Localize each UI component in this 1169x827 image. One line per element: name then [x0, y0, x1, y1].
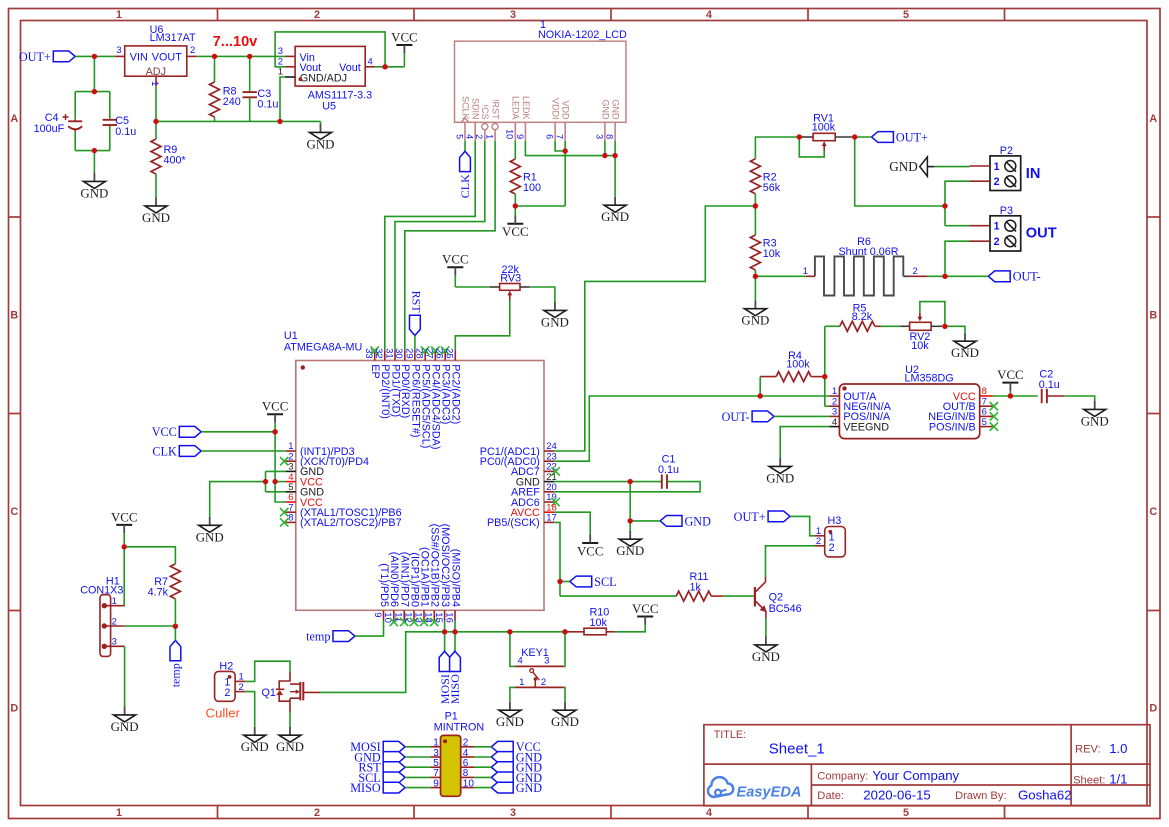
svg-text:GND: GND [276, 740, 304, 754]
svg-text:4: 4 [706, 807, 712, 819]
transistor Q2 BC546 [755, 577, 802, 618]
power VCC (H1) [111, 510, 138, 547]
wire R4 node to R5 and U2 pin2 [825, 326, 829, 406]
svg-text:BC546: BC546 [769, 603, 802, 615]
net flag VCC [152, 425, 201, 439]
wire C2 to ground [1064, 396, 1095, 401]
resistor R5 8.2k [825, 302, 901, 331]
ground GND (H2) [241, 727, 269, 754]
svg-text:VCC: VCC [111, 510, 138, 524]
wire VCC rail down to pin6 [275, 432, 286, 502]
svg-text:RST: RST [409, 291, 423, 314]
svg-text:4: 4 [706, 9, 712, 21]
svg-text:10k: 10k [590, 617, 608, 629]
svg-text:9: 9 [515, 134, 525, 139]
net flag GND (P1 pin 6) [474, 761, 542, 775]
wire U6 VOUT to U5 VIN [197, 55, 285, 57]
svg-text:2: 2 [112, 616, 117, 627]
ground GND (C2) [1081, 401, 1109, 428]
svg-text:(MISO)/PB4: (MISO)/PB4 [449, 549, 461, 607]
wire OUT- flag to U2 pin3 [774, 415, 829, 417]
svg-text:P3: P3 [1000, 205, 1013, 217]
wire C4/C5 top loop [75, 92, 110, 120]
svg-text:MINTRON: MINTRON [434, 721, 484, 733]
svg-text:(SS#/OC1B)/PB2: (SS#/OC1B)/PB2 [429, 524, 441, 607]
svg-text:Sheet_1: Sheet_1 [769, 741, 825, 758]
wire RV2 wiper loop [920, 302, 945, 327]
svg-text:13: 13 [412, 612, 423, 623]
svg-text:EasyEDA: EasyEDA [737, 785, 802, 801]
svg-text:OUT: OUT [1026, 226, 1057, 242]
connector H1 CON1X3 [80, 575, 124, 656]
svg-text:P2: P2 [1000, 145, 1013, 157]
svg-text:OUT+: OUT+ [19, 50, 51, 64]
svg-text:REV:: REV: [1075, 744, 1101, 756]
net flag GND (P1 pin 3) [354, 750, 430, 764]
wire RST flag to U1 pin29 [414, 336, 416, 351]
svg-text:29: 29 [403, 348, 414, 359]
svg-text:3: 3 [116, 45, 121, 56]
svg-text:3: 3 [544, 656, 549, 667]
svg-text:GND: GND [1081, 414, 1109, 428]
wire H2 pin2 to ground [245, 692, 254, 727]
ground GND (U1) [196, 517, 224, 544]
wire RV3 wiper to U1 PC2 [455, 300, 510, 350]
wire rail to KEY1 pin3 [564, 632, 565, 667]
power VCC (U2) [997, 368, 1024, 396]
svg-text:LEDK: LEDK [521, 96, 531, 120]
svg-text:7...10v: 7...10v [213, 34, 259, 50]
svg-text:Your Company: Your Company [872, 768, 959, 783]
ground GND (R9) [142, 198, 170, 225]
wire VCC down to H1 pin1 [123, 547, 125, 606]
svg-text:3: 3 [510, 807, 516, 819]
svg-text:31: 31 [383, 348, 394, 359]
svg-text:C: C [1149, 506, 1157, 518]
power VCC (LCD backlight) [502, 206, 529, 239]
resistor R8 240 [210, 56, 241, 121]
svg-text:PC2/(ADC2): PC2/(ADC2) [450, 364, 462, 424]
svg-text:2: 2 [994, 236, 1000, 248]
svg-text:1: 1 [803, 266, 808, 277]
resistor R11 1k [676, 571, 723, 601]
net flag SCL (P1 pin 7) [358, 771, 430, 785]
svg-text:VCC: VCC [391, 30, 418, 44]
svg-text:9: 9 [433, 778, 439, 789]
connector H3 [815, 515, 846, 557]
svg-text:(XTAL2/TOSC2)/PB7: (XTAL2/TOSC2)/PB7 [300, 517, 402, 529]
net flag OUT+ (H3) [734, 510, 790, 524]
svg-text:SDIN: SDIN [471, 98, 481, 120]
svg-text:ATMEGA8A-MU: ATMEGA8A-MU [284, 342, 362, 354]
svg-text:AMS1117-3.3: AMS1117-3.3 [308, 90, 372, 102]
wire Q1 gate to U1 PB3 net [320, 632, 445, 693]
wire dot to SCL flag [560, 581, 570, 583]
resistor R9 400* [151, 121, 187, 197]
net flag OUT+ (divider) [872, 130, 928, 144]
wire KEY1 pin2 to ground [564, 687, 565, 701]
wire RV3 right to ground [530, 287, 555, 302]
svg-text:PC6/(RESET#): PC6/(RESET#) [409, 364, 421, 437]
svg-text:(AIN0)/PD6: (AIN0)/PD6 [388, 552, 400, 607]
svg-text:1: 1 [519, 677, 524, 688]
wire dot to OUT- flag [945, 275, 988, 277]
resistor R3 10k [750, 235, 780, 276]
svg-text:VIN: VIN [130, 51, 148, 63]
connector P3 OUT [970, 205, 1057, 251]
svg-text:GND: GND [541, 315, 569, 329]
svg-text:OUT-: OUT- [722, 410, 750, 424]
svg-text:OUT+: OUT+ [896, 130, 928, 144]
svg-text:100uF: 100uF [34, 123, 65, 135]
svg-text:0.1u: 0.1u [257, 99, 278, 111]
net flag MISO (vertical) [448, 651, 462, 704]
svg-text:OUT-: OUT- [1013, 270, 1041, 284]
power VCC (RV3) [442, 253, 469, 287]
resistor R2 56k [750, 159, 780, 206]
net flag CLK (vertical) [458, 151, 472, 198]
svg-text:8: 8 [288, 513, 293, 524]
wire R2/R3 node [754, 206, 756, 235]
svg-text:14: 14 [423, 612, 434, 623]
power VCC (R10) [632, 602, 659, 625]
resistor R4 100k [760, 350, 825, 396]
svg-text:2: 2 [190, 45, 195, 56]
svg-text:A: A [1149, 113, 1157, 125]
svg-text:GND: GND [766, 471, 794, 485]
connector P1 MINTRON [430, 711, 484, 797]
wire !CS to U1 PD1 [395, 141, 485, 350]
ground GND (Q2) [752, 637, 780, 664]
wire CLK flag to pin1 [201, 450, 285, 452]
svg-text:7: 7 [555, 134, 565, 139]
svg-text:4.7k: 4.7k [148, 586, 169, 598]
svg-text:VCC: VCC [997, 368, 1024, 382]
wire Q2 collector to H3 pin2 [766, 546, 815, 577]
opamp U2 LM358DG [829, 364, 998, 439]
wire RV1 to OUT+ flag [852, 136, 872, 138]
net flag GND (P1 pin 8) [474, 771, 542, 785]
net flag CLK [152, 444, 201, 458]
wire key/R10 rail [445, 631, 565, 633]
wire OUT+ to U6 VIN [75, 55, 115, 57]
svg-text:U5: U5 [322, 101, 336, 113]
LCD module 1 NOKIA-1202_LCD [454, 19, 627, 141]
svg-text:GND: GND [551, 715, 579, 729]
svg-text:NOKIA-1202_LCD: NOKIA-1202_LCD [538, 29, 627, 41]
svg-text:VCC: VCC [152, 425, 177, 439]
wire U2 pin4 to ground [780, 427, 829, 458]
wire to R11 [560, 595, 676, 597]
svg-text:PB5/(SCK): PB5/(SCK) [487, 517, 540, 529]
svg-text:6: 6 [545, 134, 555, 139]
wire Q1 source to ground [289, 712, 291, 727]
ground GND (C4/C5) [80, 173, 108, 200]
svg-text:2: 2 [314, 807, 320, 819]
svg-text:VOUT: VOUT [152, 51, 182, 63]
svg-text:GND: GND [616, 544, 644, 558]
wire U1 pin15 to MOSI flag [444, 621, 446, 652]
ground GND (C1) [616, 531, 644, 558]
wire down to C4/C5 [93, 56, 95, 91]
svg-text:400*: 400* [164, 154, 187, 166]
power VCC (U1) [262, 400, 289, 432]
wire VCC to R7 [124, 547, 175, 564]
wire H2 pin1 to Q1 drain [245, 661, 290, 681]
svg-text:GND: GND [611, 100, 621, 121]
svg-text:4: 4 [465, 134, 475, 139]
svg-text:5: 5 [982, 417, 987, 428]
svg-text:VCC: VCC [632, 602, 659, 616]
svg-text:GND: GND [142, 211, 170, 225]
svg-text:32: 32 [373, 348, 384, 359]
svg-text:2: 2 [239, 682, 244, 693]
svg-text:GND: GND [752, 650, 780, 664]
svg-text:2: 2 [816, 536, 821, 547]
svg-text:2: 2 [829, 542, 835, 554]
wire C1 to U1 pin20 AREF [554, 482, 700, 492]
connector H2 [215, 660, 246, 701]
shunt resistor R6 Shunt 0.06R [755, 236, 945, 295]
svg-text:GND: GND [741, 314, 769, 328]
svg-text:!RST: !RST [491, 99, 501, 120]
svg-text:VDDI: VDDI [551, 98, 561, 120]
svg-text:2: 2 [474, 134, 484, 139]
wire U5 pin4 to VCC [375, 53, 404, 66]
connector P2 IN [970, 145, 1041, 190]
capacitor C3 0.1u [243, 56, 279, 121]
wire R11 to Q2 base [723, 595, 754, 597]
svg-text:1k: 1k [690, 582, 702, 594]
wire VCC to RV3 [455, 286, 490, 288]
svg-text:GND: GND [600, 100, 610, 121]
mcu U1 ATMEGA8A-MU [280, 330, 560, 626]
switch KEY1 [515, 647, 564, 688]
svg-text:1.0: 1.0 [1109, 741, 1127, 756]
wire RV2 to ground [945, 326, 965, 333]
svg-text:15: 15 [433, 612, 444, 623]
wire VDD down to VCC rail [515, 141, 565, 206]
wire OUT+ flag to H3 pin1 [790, 516, 815, 535]
svg-text:CLK: CLK [458, 174, 472, 198]
svg-text:B: B [10, 310, 18, 322]
capacitor C2 0.1u [1039, 368, 1064, 403]
svg-text:2: 2 [314, 9, 320, 21]
wire to ground [93, 151, 95, 173]
wire U1 pin24 to R2/R3 node [554, 206, 755, 451]
wire R3 to ground [754, 276, 756, 300]
ground GND (LCD) [601, 197, 629, 224]
svg-text:OUT+: OUT+ [734, 510, 766, 524]
wire H1 pin3 to ground [124, 646, 126, 706]
svg-text:3: 3 [278, 46, 283, 57]
net flag MOSI (P1 pin 1) [350, 740, 430, 754]
svg-text:Q2: Q2 [769, 592, 783, 604]
svg-text:2: 2 [224, 687, 230, 699]
svg-text:9: 9 [372, 612, 383, 617]
svg-text:(T1)/PD5: (T1)/PD5 [378, 563, 390, 607]
svg-text:GND: GND [307, 137, 335, 151]
svg-text:1: 1 [994, 221, 1000, 233]
svg-text:GND: GND [601, 210, 629, 224]
svg-text:(OC1A)/PB1: (OC1A)/PB1 [418, 547, 430, 607]
wire temp node to flag [174, 626, 176, 640]
net flag MISO (P1 pin 9) [350, 781, 430, 795]
ground GND (RV3) [541, 302, 569, 329]
wire U2 pin8 to VCC/C2 [993, 395, 1038, 397]
svg-text:0.1u: 0.1u [115, 126, 136, 138]
trimmer RV3 22k [490, 264, 530, 300]
capacitor C1 0.1u [658, 453, 679, 489]
ground GND (KEY1 right) [551, 702, 579, 729]
svg-text:2: 2 [994, 176, 1000, 188]
svg-text:C: C [10, 506, 18, 518]
net flag MOSI (vertical) [438, 651, 452, 704]
wire KEY1 pin1 to ground [510, 687, 515, 701]
svg-text:SCLK: SCLK [460, 96, 470, 120]
ground GND (Q1) [276, 727, 304, 754]
wire GND pin3 stub [604, 141, 606, 156]
svg-text:1: 1 [149, 81, 160, 86]
svg-text:5: 5 [903, 9, 909, 21]
svg-text:8: 8 [605, 134, 615, 139]
svg-text:LM358DG: LM358DG [905, 373, 954, 385]
wire U5 GND pin down [280, 77, 285, 121]
capacitor C4 100uF polarized [34, 112, 83, 135]
wire ADJ/GND rail [156, 86, 321, 121]
svg-text:Gosha62: Gosha62 [1018, 788, 1072, 803]
net flag OUT- [988, 270, 1040, 284]
regulator U5 AMS1117-3.3 [278, 46, 375, 113]
resistor R1 100 [510, 141, 541, 206]
svg-text:H2: H2 [219, 660, 233, 672]
svg-text:LEDA: LEDA [511, 96, 521, 120]
svg-text:D: D [1149, 703, 1157, 715]
svg-text:GND/ADJ: GND/ADJ [300, 72, 347, 84]
svg-text:10k: 10k [763, 248, 781, 260]
svg-text:5: 5 [454, 134, 464, 139]
svg-text:8.2k: 8.2k [852, 311, 873, 323]
svg-text:GND: GND [111, 720, 139, 734]
svg-text:ADJ: ADJ [146, 66, 166, 78]
svg-text:3: 3 [510, 9, 516, 21]
svg-text:VCC: VCC [577, 544, 604, 558]
svg-text:1/1: 1/1 [1109, 772, 1127, 787]
wire P3 pin2 to OUT- rail [945, 241, 970, 276]
svg-text:30: 30 [393, 348, 404, 359]
svg-text:U1: U1 [284, 330, 298, 342]
svg-text:CON1X3: CON1X3 [80, 585, 123, 597]
svg-text:VCC: VCC [262, 400, 289, 414]
resistor R10 10k [565, 607, 615, 635]
svg-text:Culler: Culler [206, 705, 241, 720]
power VCC (AVCC) [577, 535, 604, 559]
power VCC (U5 out) [391, 30, 418, 53]
svg-text:1: 1 [278, 67, 283, 78]
trimmer RV2 10k [900, 313, 942, 352]
svg-text:2: 2 [913, 266, 918, 277]
svg-text:TITLE:: TITLE: [714, 729, 746, 741]
ground GND (U5) [307, 121, 335, 151]
svg-text:1: 1 [112, 596, 117, 607]
wire U1 pin23 to U2 OUT/A [554, 396, 829, 461]
svg-text:2020-06-15: 2020-06-15 [863, 788, 930, 803]
svg-text:GND: GND [241, 740, 269, 754]
svg-text:0.1u: 0.1u [658, 464, 679, 476]
svg-text:RV3: RV3 [500, 272, 521, 284]
ground GND (H1) [111, 707, 139, 734]
svg-text:MISO: MISO [448, 674, 462, 704]
svg-text:GND: GND [80, 186, 108, 200]
wire GND to P2 pin1 [934, 166, 969, 168]
trimmer RV1 100k [801, 113, 852, 151]
svg-text:Sheet:: Sheet: [1073, 774, 1105, 786]
wire temp flag to U1 pin9 [355, 621, 384, 637]
svg-text:GND: GND [196, 530, 224, 544]
net flag RST (P1 pin 5) [358, 761, 430, 775]
svg-text:B: B [1149, 310, 1157, 322]
svg-text:GND: GND [951, 346, 979, 360]
net flag OUT- (U2) [722, 410, 774, 424]
svg-text:Company:: Company: [817, 770, 868, 782]
svg-text:GND: GND [516, 781, 543, 795]
svg-text:3: 3 [594, 134, 604, 139]
ground GND (RV2) [951, 333, 979, 360]
wire RV1 wiper loop [799, 137, 824, 157]
svg-text:VCC: VCC [502, 225, 529, 239]
svg-text:LM317AT: LM317AT [150, 32, 196, 44]
svg-text:VDD: VDD [561, 100, 571, 120]
svg-text:240: 240 [223, 96, 241, 108]
wire SCLK to CLK flag [464, 141, 466, 151]
svg-text:Date:: Date: [817, 790, 844, 802]
svg-text:100k: 100k [786, 359, 810, 371]
EasyEDA logo [708, 777, 801, 800]
svg-text:A: A [10, 113, 18, 125]
svg-text:D: D [10, 703, 18, 715]
svg-text:MISO: MISO [350, 781, 381, 795]
svg-text:5: 5 [903, 807, 909, 819]
wire U1 pin18 AVCC to VCC [554, 512, 590, 534]
svg-text:VEEGND: VEEGND [843, 421, 889, 433]
svg-text:1: 1 [116, 9, 122, 21]
svg-text:VCC: VCC [442, 253, 469, 267]
svg-text:4: 4 [832, 417, 837, 428]
svg-text:GND: GND [889, 159, 918, 174]
svg-text:GND: GND [685, 514, 712, 528]
net flag GND (P1 pin 10) [474, 781, 542, 795]
svg-text:Shunt 0.06R: Shunt 0.06R [838, 246, 898, 258]
wire VDDI to VDD [555, 141, 565, 151]
net flag temp (vertical) [169, 640, 183, 687]
wire GND loop pins 3/5 [266, 471, 286, 491]
wire RV1 left down to R2 [755, 137, 799, 159]
net flag SCL [570, 575, 617, 589]
svg-text:10k: 10k [911, 340, 929, 352]
svg-text:temp: temp [306, 630, 330, 644]
wire GND node down [629, 482, 631, 531]
svg-text:Drawn By:: Drawn By: [955, 790, 1007, 802]
ground GND (U2) [766, 458, 794, 485]
ground flag GND (P2) [889, 157, 934, 176]
svg-text:12: 12 [402, 612, 413, 623]
svg-text:!CS: !CS [480, 104, 490, 119]
svg-text:temp: temp [169, 663, 183, 687]
ground GND (KEY1 left) [496, 702, 524, 729]
svg-text:10: 10 [505, 129, 515, 139]
wire OUT+ node down to P2/P3 rail [855, 137, 945, 206]
wire !RST to U1 PD0 [405, 141, 495, 350]
